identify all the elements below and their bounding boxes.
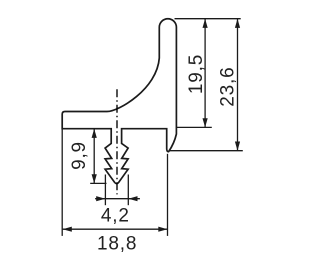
- svg-text:9,9: 9,9: [69, 141, 90, 170]
- extension line low (y=150.7): [169, 150, 243, 152]
- extension line mid (y=127.4): [176, 126, 211, 128]
- extension line top (y=18.7): [175, 18, 241, 20]
- dimension 9,9: [93, 129, 95, 184]
- profile outline: [62, 19, 176, 184]
- dimension 4,2: [104, 175, 106, 206]
- svg-text:4,2: 4,2: [101, 205, 130, 226]
- svg-text:19,5: 19,5: [186, 54, 207, 94]
- dimension 19,5: [204, 19, 206, 128]
- dimension 23,6: [237, 19, 239, 151]
- dimension 18,8: [61, 129, 63, 236]
- svg-text:23,6: 23,6: [218, 67, 239, 107]
- svg-text:18,8: 18,8: [97, 233, 137, 254]
- centerline of barb: [116, 89, 118, 194]
